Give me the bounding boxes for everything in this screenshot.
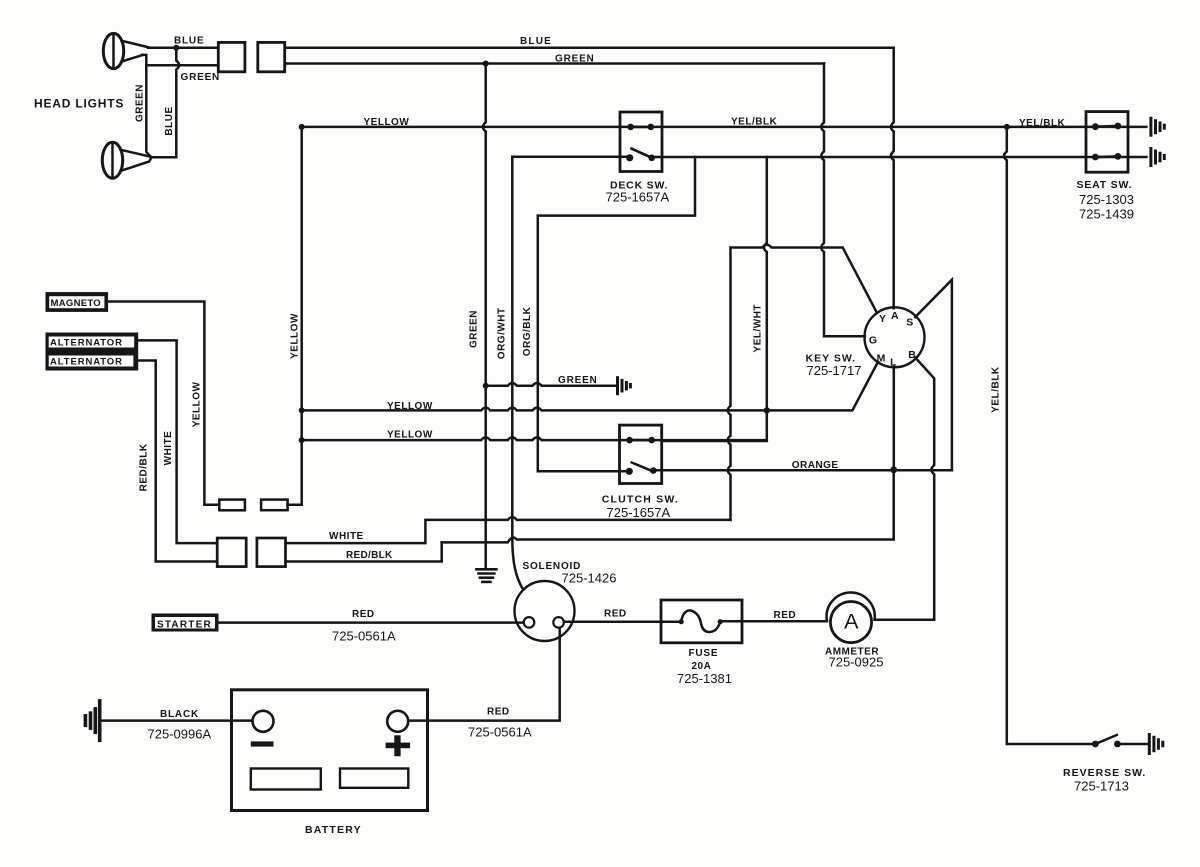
svg-text:725-0925: 725-0925 — [829, 655, 884, 670]
svg-text:725-1717: 725-1717 — [807, 363, 862, 378]
svg-text:YELLOW: YELLOW — [387, 401, 433, 412]
svg-text:725-0561A: 725-0561A — [332, 629, 396, 644]
svg-text:YELLOW: YELLOW — [192, 381, 203, 427]
svg-text:YEL/BLK: YEL/BLK — [1019, 118, 1066, 129]
svg-text:YELLOW: YELLOW — [364, 117, 410, 128]
svg-text:RED/BLK: RED/BLK — [346, 550, 393, 561]
svg-text:M: M — [877, 352, 886, 364]
svg-text:YEL/BLK: YEL/BLK — [990, 366, 1001, 413]
svg-text:BLUE: BLUE — [164, 106, 175, 135]
svg-text:A: A — [844, 610, 859, 634]
svg-text:725-1381: 725-1381 — [677, 671, 732, 686]
svg-text:725-1439: 725-1439 — [1079, 207, 1134, 222]
svg-text:ALTERNATOR: ALTERNATOR — [50, 357, 123, 368]
svg-text:RED: RED — [487, 707, 510, 718]
svg-text:YELLOW: YELLOW — [289, 313, 300, 359]
svg-text:YEL/WHT: YEL/WHT — [753, 304, 764, 353]
svg-text:GREEN: GREEN — [558, 375, 598, 386]
svg-text:WHITE: WHITE — [329, 531, 364, 542]
svg-text:BLACK: BLACK — [160, 709, 199, 720]
svg-text:ORANGE: ORANGE — [792, 460, 839, 471]
svg-text:WHITE: WHITE — [163, 431, 174, 466]
svg-text:Y: Y — [879, 313, 886, 325]
svg-text:HEAD LIGHTS: HEAD LIGHTS — [34, 97, 124, 111]
svg-text:B: B — [908, 349, 916, 361]
svg-text:MAGNETO: MAGNETO — [51, 298, 101, 309]
svg-text:GREEN: GREEN — [181, 72, 221, 83]
svg-text:RED: RED — [774, 610, 797, 621]
svg-text:YELLOW: YELLOW — [387, 430, 433, 441]
svg-text:ORG/BLK: ORG/BLK — [522, 306, 533, 356]
svg-text:725-1303: 725-1303 — [1079, 192, 1134, 207]
svg-text:RED: RED — [352, 609, 375, 620]
svg-text:725-1657A: 725-1657A — [607, 505, 671, 520]
svg-text:725-1426: 725-1426 — [562, 571, 617, 586]
svg-text:FUSE: FUSE — [689, 648, 719, 659]
svg-text:725-0561A: 725-0561A — [468, 725, 532, 740]
svg-text:STARTER: STARTER — [157, 619, 212, 630]
svg-text:GREEN: GREEN — [135, 84, 146, 122]
svg-text:L: L — [890, 356, 897, 368]
svg-text:725-1657A: 725-1657A — [606, 190, 670, 205]
svg-text:SEAT SW.: SEAT SW. — [1077, 179, 1133, 191]
svg-text:REVERSE SW.: REVERSE SW. — [1063, 767, 1146, 779]
svg-text:BLUE: BLUE — [174, 36, 204, 47]
svg-text:BATTERY: BATTERY — [305, 824, 362, 836]
svg-text:CLUTCH SW.: CLUTCH SW. — [602, 494, 679, 506]
svg-text:GREEN: GREEN — [469, 310, 480, 348]
svg-text:A: A — [891, 310, 899, 322]
svg-text:S: S — [906, 317, 913, 329]
svg-text:ORG/WHT: ORG/WHT — [497, 307, 508, 359]
svg-text:725-0996A: 725-0996A — [148, 727, 212, 742]
svg-text:RED/BLK: RED/BLK — [138, 443, 149, 491]
svg-text:YEL/BLK: YEL/BLK — [731, 117, 778, 128]
svg-text:ALTERNATOR: ALTERNATOR — [50, 338, 123, 349]
svg-text:RED: RED — [604, 609, 627, 620]
svg-text:G: G — [869, 335, 877, 347]
svg-text:GREEN: GREEN — [555, 54, 595, 65]
svg-text:BLUE: BLUE — [520, 36, 552, 47]
svg-text:725-1713: 725-1713 — [1074, 779, 1129, 794]
